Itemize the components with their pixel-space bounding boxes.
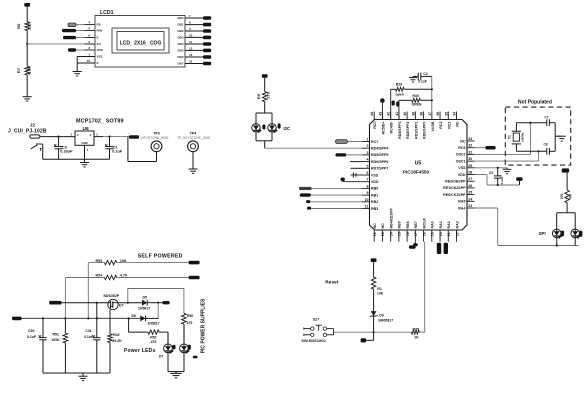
svg-text:RC1: RC1 bbox=[447, 122, 451, 129]
svg-text:MCP1702_ SOT89: MCP1702_ SOT89 bbox=[76, 119, 124, 125]
svg-text:2: 2 bbox=[367, 144, 369, 148]
pin 26 RE1/CK2SPP bbox=[467, 187, 475, 189]
svg-text:VO: VO bbox=[97, 42, 102, 46]
LCD pin 2 VDD bbox=[85, 49, 96, 51]
svg-text:C30: C30 bbox=[28, 329, 34, 333]
resistor R54 bbox=[65, 277, 104, 279]
svg-text:J2: J2 bbox=[30, 122, 35, 127]
svg-text:33: 33 bbox=[468, 137, 472, 141]
svg-text:RA5: RA5 bbox=[458, 200, 465, 204]
capacitor C1 bbox=[108, 136, 110, 138]
svg-text:26: 26 bbox=[468, 184, 472, 188]
dashed box Not Populated bbox=[505, 107, 570, 165]
net label (LCD VDD) bbox=[68, 48, 76, 51]
svg-text:23: 23 bbox=[468, 204, 472, 208]
svg-text:RD4/SPP4: RD4/SPP4 bbox=[371, 147, 388, 151]
net label DB5 bbox=[203, 49, 211, 53]
pin 29 VSS bbox=[467, 167, 475, 169]
wire R6 to R7 bbox=[26, 31, 28, 67]
LCD pin 10 DB3 bbox=[185, 36, 203, 38]
wire D9 to MCLR rail bbox=[373, 316, 375, 332]
svg-text:33.2K: 33.2K bbox=[112, 339, 122, 343]
svg-text:15: 15 bbox=[398, 232, 402, 236]
svg-text:DB6: DB6 bbox=[177, 55, 183, 59]
svg-text:NC: NC bbox=[460, 139, 466, 143]
wire LEDs join to RD4 bbox=[255, 132, 257, 141]
svg-text:C5: C5 bbox=[489, 171, 493, 175]
svg-text:4.7K: 4.7K bbox=[26, 66, 31, 75]
svg-text:14: 14 bbox=[389, 232, 393, 236]
svg-text:LCD_ 2X16_ COG: LCD_ 2X16_ COG bbox=[120, 40, 162, 46]
svg-text:SELF POWERED: SELF POWERED bbox=[138, 253, 183, 259]
svg-text:OPEN: OPEN bbox=[412, 103, 422, 107]
net label RA2 bbox=[444, 243, 448, 254]
ground (pin 29 VSS) bbox=[475, 167, 508, 169]
svg-text:DB2: DB2 bbox=[177, 29, 183, 33]
svg-text:RB6: RB6 bbox=[406, 221, 410, 228]
svg-text:0.1uF: 0.1uF bbox=[84, 335, 94, 339]
svg-text:_KEYSTONE_5000: _KEYSTONE_5000 bbox=[139, 136, 169, 140]
svg-text:SM05817: SM05817 bbox=[378, 318, 393, 322]
svg-text:21: 21 bbox=[447, 232, 451, 236]
svg-text:RB4/CESPP: RB4/CESPP bbox=[389, 208, 393, 229]
svg-text:RA4: RA4 bbox=[458, 206, 465, 210]
wire U6 VOUT bbox=[103, 136, 129, 138]
svg-text:C8: C8 bbox=[544, 142, 548, 146]
ground (R7) bbox=[23, 96, 32, 98]
svg-text:20MHz: 20MHz bbox=[521, 132, 525, 142]
svg-text:RD1/SPP1: RD1/SPP1 bbox=[414, 122, 418, 139]
capacitor C2 (VUSB bypass) bbox=[417, 73, 419, 81]
pin 19 RA0 bbox=[431, 230, 433, 242]
net label DB0 bbox=[203, 16, 211, 20]
svg-text:39: 39 bbox=[411, 112, 415, 116]
wire TP3 to VDD rail bbox=[156, 152, 158, 162]
svg-text:D6: D6 bbox=[131, 314, 136, 318]
svg-text:30: 30 bbox=[468, 157, 472, 161]
LCD pin 11 DB4 bbox=[185, 43, 203, 45]
svg-text:S27: S27 bbox=[313, 317, 320, 321]
power flag VDD (pin 7) bbox=[343, 181, 362, 183]
wire LCD VSS/K to ground bbox=[77, 56, 95, 58]
ground (crystal caps) bbox=[555, 135, 560, 137]
net label (pin 10 RB2) bbox=[306, 200, 310, 203]
crystal network wires bbox=[516, 122, 546, 124]
wire R52 to LED D7 bbox=[159, 331, 168, 333]
svg-text:Y1: Y1 bbox=[507, 135, 511, 139]
LED D1 bbox=[571, 229, 580, 238]
svg-text:16: 16 bbox=[406, 232, 410, 236]
pin 23 RA4 bbox=[467, 207, 475, 209]
LCD pin 13 DB6 bbox=[185, 56, 203, 58]
svg-text:VSS: VSS bbox=[97, 55, 103, 59]
svg-text:VSS: VSS bbox=[371, 173, 379, 177]
svg-text:R1: R1 bbox=[377, 287, 382, 291]
wire U6 GND pin bbox=[84, 145, 86, 162]
svg-text:R30: R30 bbox=[412, 94, 418, 98]
svg-text:U7: U7 bbox=[119, 304, 124, 308]
pin 28 VDD bbox=[467, 174, 475, 176]
pin 3 RD5/SPP5 bbox=[362, 154, 370, 156]
pin 9 RB1 bbox=[362, 194, 370, 196]
wire MCLR bbox=[424, 242, 426, 333]
svg-text:I2C: I2C bbox=[283, 126, 291, 131]
svg-text:Reset: Reset bbox=[325, 280, 338, 286]
svg-text:24: 24 bbox=[468, 197, 472, 201]
svg-text:11: 11 bbox=[365, 205, 369, 209]
svg-text:6: 6 bbox=[88, 34, 90, 38]
svg-text:RD2/SPP2: RD2/SPP2 bbox=[406, 122, 410, 139]
jack switch contact bbox=[31, 145, 37, 148]
wire loop to R50 bbox=[128, 289, 184, 314]
svg-text:16: 16 bbox=[87, 59, 91, 63]
net label (R53 right) bbox=[189, 261, 200, 265]
svg-text:RD7/SPP7: RD7/SPP7 bbox=[371, 167, 388, 171]
resistor R40 bbox=[108, 334, 113, 343]
ground (TP4) bbox=[189, 168, 198, 170]
svg-text:40: 40 bbox=[403, 112, 407, 116]
svg-text:475: 475 bbox=[187, 321, 193, 325]
resistor R6 bbox=[25, 22, 30, 31]
svg-text:RB3: RB3 bbox=[371, 207, 378, 211]
net label (LCD E) bbox=[63, 36, 76, 39]
svg-text:PIC18F4550: PIC18F4550 bbox=[403, 170, 430, 175]
svg-text:31: 31 bbox=[468, 150, 472, 154]
wire VO to LCD pin bbox=[27, 43, 95, 45]
net label (R54 right) bbox=[189, 276, 200, 280]
svg-text:41: 41 bbox=[395, 112, 399, 116]
wire pin 28 VDD bbox=[475, 174, 488, 176]
net flag pin RC5/D+ bbox=[381, 103, 383, 120]
svg-text:RE0/CK1SPP: RE0/CK1SPP bbox=[443, 193, 466, 197]
wire R4 to LEDs bbox=[566, 203, 568, 213]
svg-text:9: 9 bbox=[367, 191, 369, 195]
net label (pin 32 RC6) bbox=[475, 147, 486, 149]
capacitor C5 (VDD bypass) bbox=[497, 167, 499, 169]
resistor R7 bbox=[25, 66, 30, 75]
LCD pin 6 E bbox=[85, 37, 96, 39]
LCD pin 9 DB2 bbox=[185, 30, 203, 32]
svg-text:0.1uF: 0.1uF bbox=[418, 80, 427, 84]
svg-text:TP3: TP3 bbox=[153, 132, 160, 136]
svg-text:NC: NC bbox=[456, 121, 460, 127]
net label RA1 bbox=[437, 243, 441, 254]
pin 18 MCLR bbox=[423, 230, 425, 242]
svg-text:RB7: RB7 bbox=[414, 221, 418, 228]
ground (power LEDs) bbox=[171, 372, 182, 374]
svg-text:10K: 10K bbox=[377, 292, 384, 296]
svg-text:13: 13 bbox=[189, 53, 193, 57]
pin 17 RB7 bbox=[414, 230, 416, 242]
svg-text:C2: C2 bbox=[423, 72, 427, 76]
pin 32 RC6 bbox=[467, 147, 475, 149]
net flag (pin 28 net) bbox=[519, 181, 521, 185]
svg-text:R6: R6 bbox=[16, 23, 21, 29]
svg-text:TP_KEYSTONE_5000: TP_KEYSTONE_5000 bbox=[177, 136, 210, 140]
svg-text:270: 270 bbox=[266, 91, 271, 98]
svg-text:17: 17 bbox=[414, 232, 418, 236]
svg-text:5: 5 bbox=[88, 27, 90, 31]
net label (LCD RS) bbox=[68, 23, 76, 26]
wire OSC1 bbox=[475, 160, 539, 162]
resistor R53 bbox=[88, 262, 104, 264]
svg-text:NDS352P: NDS352P bbox=[104, 294, 120, 298]
resistor R52 bbox=[148, 330, 159, 334]
power flag (R5) bbox=[262, 74, 268, 78]
svg-text:28: 28 bbox=[468, 171, 472, 175]
svg-text:RC2: RC2 bbox=[439, 122, 443, 129]
LCD pin 12 DB5 bbox=[185, 49, 203, 51]
pin 1 RC7 bbox=[362, 141, 370, 143]
svg-text:DB4: DB4 bbox=[177, 42, 183, 46]
svg-text:R29: R29 bbox=[396, 83, 402, 87]
wire R5 to LEDs bbox=[264, 102, 266, 113]
net labels below RB6/RB7 bbox=[409, 245, 416, 248]
svg-text:RA0: RA0 bbox=[431, 221, 435, 228]
svg-text:VSS: VSS bbox=[458, 166, 466, 170]
svg-text:D5: D5 bbox=[143, 296, 148, 300]
wire jack to bottom rail bbox=[42, 144, 44, 159]
svg-text:35: 35 bbox=[444, 112, 448, 116]
svg-text:36: 36 bbox=[436, 112, 440, 116]
net label VDD (testpoint row) bbox=[129, 135, 139, 139]
LED D2 bbox=[268, 124, 276, 132]
net label DB6 bbox=[203, 55, 211, 59]
wire reset rail bbox=[334, 331, 412, 333]
pin 30 OSC1 bbox=[467, 160, 475, 162]
svg-text:20: 20 bbox=[439, 232, 443, 236]
main rail VBUS-D6 bbox=[12, 317, 22, 321]
LED D3 bbox=[552, 229, 561, 238]
bottom rail bbox=[43, 372, 110, 374]
LCD pin 7 DB0 bbox=[185, 17, 203, 19]
wire R7 to ground bbox=[26, 75, 28, 97]
svg-text:R40: R40 bbox=[113, 333, 119, 337]
pin 10 RB2 bbox=[362, 201, 370, 203]
svg-text:OSC1: OSC1 bbox=[456, 159, 466, 163]
svg-text:R7: R7 bbox=[16, 67, 21, 73]
pin 5 RD7/SPP7 bbox=[362, 167, 370, 169]
ground (C2) bbox=[412, 76, 414, 77]
wire R54 down (R51 column) bbox=[64, 278, 66, 319]
svg-text:DB7: DB7 bbox=[177, 62, 183, 66]
svg-text:D7: D7 bbox=[159, 355, 163, 359]
pin 5 stub wire bbox=[351, 167, 363, 169]
svg-text:10K: 10K bbox=[120, 259, 127, 263]
svg-text:VDD: VDD bbox=[371, 180, 379, 184]
svg-text:12: 12 bbox=[189, 46, 193, 50]
LED D4 bbox=[252, 124, 260, 132]
svg-text:13: 13 bbox=[381, 232, 385, 236]
LCD pin 5 R/W bbox=[85, 30, 96, 32]
net label (D5 cathode) bbox=[163, 301, 170, 304]
resistor R51 bbox=[64, 318, 66, 333]
svg-text:22: 22 bbox=[455, 232, 459, 236]
svg-text:10: 10 bbox=[189, 33, 193, 37]
svg-text:RE1/CK2SPP: RE1/CK2SPP bbox=[443, 186, 466, 190]
LCD pin 4 RS bbox=[85, 24, 96, 26]
svg-text:38: 38 bbox=[420, 112, 424, 116]
LCD pin 16 K bbox=[85, 62, 96, 64]
pin 34 NC bbox=[456, 112, 458, 120]
svg-text:DB3: DB3 bbox=[177, 36, 183, 40]
svg-text:RD0/SPP0: RD0/SPP0 bbox=[423, 122, 427, 139]
wire D5/D6 cathode join bbox=[157, 303, 159, 319]
resistor R1 bbox=[371, 277, 376, 289]
wire LEDs to ground bbox=[167, 353, 169, 372]
svg-text:PIC POWER SUPPLIES: PIC POWER SUPPLIES bbox=[200, 298, 206, 353]
svg-text:100K: 100K bbox=[51, 338, 60, 342]
svg-text:14: 14 bbox=[189, 60, 193, 64]
pin 8 RB0 bbox=[362, 187, 370, 189]
svg-text:NC: NC bbox=[381, 223, 385, 229]
LED D8 bbox=[180, 344, 189, 353]
net label D- (pin 42) bbox=[392, 101, 395, 106]
pin 15 RB5 bbox=[398, 230, 400, 242]
svg-text:R52: R52 bbox=[150, 336, 156, 340]
svg-text:5: 5 bbox=[367, 164, 369, 168]
svg-text:MCLR: MCLR bbox=[422, 218, 426, 229]
svg-text:VUSB: VUSB bbox=[431, 121, 435, 131]
svg-text:R51: R51 bbox=[53, 333, 59, 337]
svg-text:12: 12 bbox=[373, 232, 377, 236]
svg-text:44: 44 bbox=[370, 112, 374, 116]
net label DB3 bbox=[203, 36, 211, 40]
svg-text:475: 475 bbox=[151, 340, 157, 344]
wire rail to R52 bbox=[128, 318, 130, 332]
svg-text:TP4: TP4 bbox=[190, 132, 197, 136]
pin 6 VSS bbox=[362, 174, 370, 176]
svg-text:19: 19 bbox=[431, 232, 435, 236]
capacitor C31 bbox=[96, 303, 98, 338]
node VO junction bbox=[26, 43, 28, 45]
svg-text:R50: R50 bbox=[187, 314, 193, 318]
ground (bottom rail) bbox=[82, 373, 84, 376]
svg-text:18: 18 bbox=[422, 232, 426, 236]
wire OSC2 bbox=[475, 153, 531, 155]
wire U7 drain to D5 bbox=[118, 302, 142, 304]
net flag (R4 top) bbox=[562, 168, 569, 172]
svg-text:10: 10 bbox=[365, 198, 369, 202]
svg-text:RA2: RA2 bbox=[447, 221, 451, 228]
wire SPI LEDs to rail bbox=[556, 238, 558, 246]
pin 2 RD4/SPP4 bbox=[362, 147, 370, 149]
svg-text:34: 34 bbox=[453, 112, 457, 116]
pin 31 OSC2 bbox=[467, 153, 475, 155]
svg-text:C7: C7 bbox=[544, 116, 548, 120]
wire VUSB bbox=[431, 76, 433, 119]
svg-text:R4: R4 bbox=[569, 194, 573, 198]
pin 11 RB3 bbox=[362, 208, 370, 210]
net label DB2 bbox=[203, 29, 211, 33]
svg-text:SPI: SPI bbox=[539, 231, 546, 236]
svg-text:43: 43 bbox=[378, 112, 382, 116]
pin 21 RA2 bbox=[447, 230, 449, 242]
svg-text:2: 2 bbox=[88, 46, 90, 50]
svg-text:R54: R54 bbox=[96, 274, 103, 278]
svg-text:7: 7 bbox=[189, 14, 191, 18]
svg-text:2: 2 bbox=[71, 132, 73, 136]
net label (LCD R/W) bbox=[62, 29, 76, 32]
svg-text:27: 27 bbox=[468, 177, 472, 181]
svg-text:RC4/D-: RC4/D- bbox=[390, 121, 394, 134]
svg-text:1: 1 bbox=[87, 148, 89, 152]
svg-text:1: 1 bbox=[88, 53, 90, 57]
svg-text:R53: R53 bbox=[96, 259, 103, 263]
VSS tie (pin 6) bbox=[352, 174, 363, 176]
net label D+ (pin 41) bbox=[396, 102, 399, 107]
wire RA4 to SPI LEDs bbox=[475, 207, 498, 209]
svg-text:3: 3 bbox=[367, 151, 369, 155]
LCD pin 3 VO bbox=[85, 43, 96, 45]
wire U7 to R40 bbox=[109, 310, 111, 334]
ground (U6) bbox=[80, 162, 89, 164]
resistor R35 bbox=[411, 330, 419, 334]
wire R50 to LED D8 bbox=[183, 324, 185, 344]
svg-text:523: 523 bbox=[26, 22, 31, 29]
pin 27 RE2/OESPP bbox=[467, 180, 475, 182]
svg-text:RS: RS bbox=[97, 23, 101, 27]
svg-text:42: 42 bbox=[387, 112, 391, 116]
svg-text:R5: R5 bbox=[256, 93, 261, 99]
svg-text:RC7: RC7 bbox=[371, 140, 378, 144]
diode D9 SM05817 bbox=[371, 311, 377, 316]
svg-text:0.1uF: 0.1uF bbox=[112, 149, 123, 153]
svg-text:2: 2 bbox=[77, 133, 79, 137]
LCD pin 14 DB7 bbox=[185, 63, 203, 65]
svg-text:NC: NC bbox=[373, 223, 377, 229]
svg-text:32: 32 bbox=[468, 144, 472, 148]
svg-text:25: 25 bbox=[468, 191, 472, 195]
pin 40 RD2/SPP2 bbox=[406, 112, 408, 120]
net label DB4 bbox=[203, 42, 211, 46]
pin 4 stub wire bbox=[350, 161, 362, 163]
svg-text:9: 9 bbox=[189, 27, 191, 31]
wire R1 to D9 bbox=[373, 289, 375, 311]
pin 37 VUSB bbox=[431, 112, 433, 120]
LCD pin 8 DB1 bbox=[185, 24, 203, 26]
svg-text:7: 7 bbox=[367, 178, 369, 182]
pin 38 RD0/SPP0 bbox=[423, 112, 425, 120]
svg-text:DB1: DB1 bbox=[177, 23, 183, 27]
svg-text:RC5/D+: RC5/D+ bbox=[381, 122, 385, 135]
svg-text:OSC2: OSC2 bbox=[456, 153, 466, 157]
pin 33 NC bbox=[467, 140, 475, 142]
svg-text:RB1: RB1 bbox=[371, 193, 378, 197]
pin 13 NC bbox=[381, 230, 383, 242]
pin 20 RA1 bbox=[439, 230, 441, 242]
wire VBUS to U7 bbox=[62, 302, 109, 304]
svg-text:VDD: VDD bbox=[97, 48, 104, 52]
wire R53 to rail bbox=[87, 263, 89, 319]
svg-text:1N5817: 1N5817 bbox=[147, 321, 159, 325]
net label (pin 1 RC7) bbox=[336, 140, 348, 144]
svg-text:4.7K: 4.7K bbox=[120, 274, 128, 278]
svg-text:8: 8 bbox=[189, 21, 191, 25]
svg-text:K: K bbox=[97, 61, 100, 65]
net label DB7 bbox=[203, 62, 211, 66]
svg-text:DB0: DB0 bbox=[177, 16, 183, 20]
svg-text:RB2: RB2 bbox=[371, 200, 378, 204]
net label (pin 3 RD5) bbox=[336, 153, 347, 156]
pin 7 VDD bbox=[362, 181, 370, 183]
svg-text:D9: D9 bbox=[379, 314, 384, 318]
pin 43 RC5/D+ bbox=[381, 112, 383, 120]
pin 36 RC2 bbox=[439, 112, 441, 120]
svg-text:3: 3 bbox=[96, 132, 98, 136]
svg-text:RD3/SPP3: RD3/SPP3 bbox=[398, 122, 402, 139]
svg-text:RA3: RA3 bbox=[455, 221, 459, 228]
